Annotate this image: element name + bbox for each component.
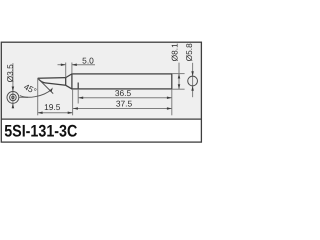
45 degree arc — [20, 89, 52, 97]
page background — [0, 0, 204, 184]
hidden stub inside shaft — [77, 83, 79, 89]
flare bottom — [66, 85, 72, 89]
dia5.8 top arrow (above circle pointing down) — [191, 71, 194, 76]
svg-text:Ø3.5: Ø3.5 — [5, 64, 15, 82]
svg-text:Ø8.1: Ø8.1 — [170, 43, 180, 61]
dia8.1 dim line — [178, 63, 180, 90]
19.5 left arrow — [38, 111, 43, 114]
36.5 right arrow — [167, 97, 172, 100]
separator line — [1, 118, 202, 120]
bevel 45 reference line (extended) — [38, 78, 54, 93]
extension / dimension thin lines — [13, 63, 193, 116]
svg-text:5.0: 5.0 — [82, 55, 94, 65]
svg-text:19.5: 19.5 — [44, 102, 61, 112]
svg-text:37.5: 37.5 — [116, 99, 133, 109]
shaft rectangle — [72, 74, 172, 89]
left end-view circles — [7, 92, 19, 104]
frame: drawing panel — [1, 42, 202, 119]
dia5.8 dim line — [192, 63, 194, 97]
dia8.1 bottom arrow — [178, 84, 181, 89]
5.0 right arrow (outside pointing left) — [72, 63, 77, 66]
36.5 left arrow — [78, 97, 83, 100]
19.5 dim line — [38, 112, 73, 114]
stub extension down — [77, 89, 79, 104]
37.5 left arrow — [73, 107, 78, 110]
dia5.8 bottom arrow (below pointing up) — [191, 86, 194, 91]
svg-text:5SI-131-3C: 5SI-131-3C — [4, 122, 77, 141]
shaft-start extension down — [72, 89, 74, 115]
apex extension down — [37, 78, 39, 115]
arrows (filled) — [12, 63, 194, 114]
dia8.1 top arrow — [178, 74, 181, 79]
right-end extension down — [171, 89, 173, 115]
frame border — [1, 42, 201, 142]
dia8.1 stubs — [172, 73, 184, 75]
flare top — [66, 74, 72, 78]
dia3.5 top arrow pointing down — [12, 87, 15, 92]
bevel cut curved profile — [38, 78, 66, 85]
svg-text:Ø5.8: Ø5.8 — [184, 43, 194, 61]
arc arrowhead upper — [50, 87, 53, 92]
frame: title bar — [1, 119, 202, 142]
5.0 left arrow (outside pointing right) — [61, 63, 66, 66]
37.5 dim line — [73, 108, 172, 110]
37.5 right arrow — [167, 107, 172, 110]
left circle centerline stub — [19, 96, 28, 98]
tip top edge — [38, 77, 66, 80]
5.0 dim line tails — [58, 64, 66, 66]
36.5 dim line — [78, 97, 172, 99]
right end-view circle — [188, 76, 198, 86]
5.0 extension lines up — [65, 63, 67, 78]
19.5 right arrow — [68, 111, 73, 114]
cone/flare junction vertical — [65, 78, 67, 86]
svg-text:36.5: 36.5 — [115, 88, 132, 98]
dia3.5 dim line — [12, 63, 14, 108]
dia3.5 bottom arrow pointing up — [12, 103, 15, 108]
dimension texts — [5, 43, 194, 112]
